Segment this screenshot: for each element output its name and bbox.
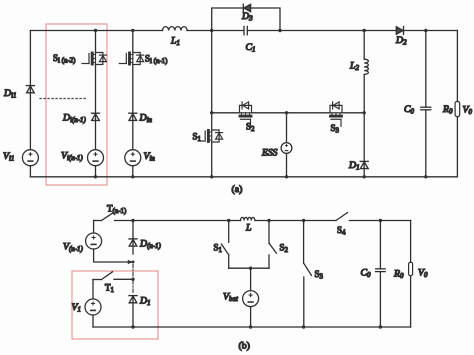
svg-text:Si (n-2): Si (n-2) bbox=[53, 53, 75, 65]
wire S1-S2 bottom link bbox=[229, 267, 269, 269]
node S2 top (b) bbox=[267, 219, 270, 222]
diode D1 (b) bbox=[129, 296, 137, 303]
node D1 bottom bbox=[363, 175, 366, 178]
wire C0 branch (a) bbox=[425, 31, 427, 177]
wire col n mid bbox=[132, 65, 134, 150]
svg-text:ESS: ESS bbox=[261, 148, 278, 159]
red highlight box (b) bbox=[72, 271, 158, 339]
diode D2 bbox=[396, 27, 403, 35]
svg-text:D1: D1 bbox=[348, 160, 360, 172]
node col n-1 top bbox=[94, 29, 97, 32]
wire Vbat top lead bbox=[250, 268, 252, 290]
node Vbat top bbox=[249, 267, 252, 270]
diode D(n-1) bbox=[129, 221, 137, 255]
svg-text:D3: D3 bbox=[241, 11, 253, 23]
node S1 bottom bbox=[210, 175, 213, 178]
wire S1 bottom lead bbox=[211, 142, 213, 177]
node cell junction bbox=[132, 261, 135, 264]
wire right rail (b) bbox=[410, 221, 412, 328]
wire col n bottom bbox=[132, 166, 134, 177]
wire bottom rail (b) bbox=[93, 326, 411, 328]
capacitor C0 (a) bbox=[421, 107, 431, 110]
svg-text:Vi1: Vi1 bbox=[3, 151, 14, 163]
node S3 right bbox=[363, 111, 366, 114]
svg-text:Di(n-1): Di(n-1) bbox=[62, 113, 86, 125]
svg-text:Din: Din bbox=[139, 113, 153, 125]
svg-text:R0: R0 bbox=[442, 104, 453, 116]
node mid (a) bbox=[210, 111, 213, 114]
wire D3 bypass branch bbox=[212, 8, 280, 31]
svg-text:V0: V0 bbox=[463, 105, 473, 117]
svg-text:Vi(n-1): Vi(n-1) bbox=[61, 151, 83, 163]
svg-text:S3: S3 bbox=[331, 123, 340, 135]
switch S2 (b) bbox=[269, 221, 276, 269]
node T1 right bbox=[131, 278, 134, 281]
source Vi(n-1) bbox=[88, 150, 104, 166]
svg-text:S4: S4 bbox=[337, 225, 346, 237]
node C0 top (b) bbox=[379, 219, 382, 222]
transistor Si(n-1) bbox=[119, 53, 143, 65]
diode D1 (a) bbox=[360, 161, 368, 168]
switch S3 (b) bbox=[304, 221, 312, 328]
node cell n top bbox=[131, 219, 134, 222]
wire L2 upper lead bbox=[363, 31, 365, 60]
svg-text:S1: S1 bbox=[193, 132, 202, 144]
svg-text:V0: V0 bbox=[418, 268, 428, 280]
wire V1 top lead bbox=[92, 280, 94, 300]
node col n top bbox=[131, 29, 134, 32]
resistor R0 (a) bbox=[455, 102, 460, 117]
switch S1 (b) bbox=[221, 221, 228, 269]
capacitor C1 bbox=[244, 26, 247, 34]
svg-text:C0: C0 bbox=[404, 104, 415, 116]
svg-text:(b): (b) bbox=[239, 341, 250, 352]
source ESS bbox=[281, 143, 292, 154]
svg-text:D(n-1): D(n-1) bbox=[139, 239, 162, 251]
svg-text:V1: V1 bbox=[72, 302, 81, 314]
node C0 top (a) bbox=[424, 29, 427, 32]
wire Vbat bottom lead bbox=[250, 307, 252, 327]
wire D1 bottom lead (b) bbox=[132, 296, 134, 327]
source Vbat bbox=[243, 291, 259, 307]
node D3 branch left bbox=[210, 29, 213, 32]
resistor R0 (b) bbox=[409, 262, 413, 275]
transistor S3 (a) bbox=[330, 102, 342, 126]
wire C0 branch (b) bbox=[379, 221, 381, 328]
inductor L (b) bbox=[241, 217, 255, 220]
wire col n-1 mid bbox=[95, 65, 97, 150]
diode Di1 bbox=[26, 86, 34, 93]
svg-text:Si (n-1): Si (n-1) bbox=[145, 54, 167, 66]
svg-text:C0: C0 bbox=[361, 268, 372, 280]
svg-text:S3: S3 bbox=[315, 269, 324, 281]
svg-text:T1: T1 bbox=[105, 283, 115, 295]
switch S4 (b) bbox=[336, 213, 348, 221]
wire col n-1 bottom bbox=[95, 166, 97, 177]
node S1 top (b) bbox=[227, 219, 230, 222]
node C0 bottom (b) bbox=[379, 325, 382, 328]
wire V(n-1) bottom lead bbox=[94, 249, 128, 262]
diode Din bbox=[129, 113, 137, 120]
svg-text:Vbat: Vbat bbox=[223, 292, 239, 304]
svg-text:D2: D2 bbox=[395, 35, 407, 47]
svg-text:L1: L1 bbox=[170, 36, 180, 48]
wire ESS leads bbox=[286, 113, 288, 177]
source V1 bbox=[85, 299, 101, 315]
svg-text:(a): (a) bbox=[232, 184, 243, 195]
wire V1 bottom lead bbox=[92, 315, 94, 327]
svg-text:L2: L2 bbox=[349, 61, 359, 73]
node Vbat bottom bbox=[249, 325, 252, 328]
wire left rail (a) bbox=[29, 31, 31, 150]
node S3 bottom (b) bbox=[302, 325, 305, 328]
node D1 bottom (b) bbox=[131, 325, 134, 328]
node col n bottom bbox=[131, 175, 134, 178]
inductor L1 bbox=[163, 27, 188, 31]
wire S2 row bbox=[212, 112, 365, 114]
node D3 branch right bbox=[278, 29, 281, 32]
source Vin bbox=[125, 150, 141, 166]
svg-text:L: L bbox=[245, 223, 251, 234]
svg-text:S2: S2 bbox=[246, 122, 255, 134]
wire top rail (b) bbox=[115, 220, 411, 222]
svg-text:R0: R0 bbox=[393, 269, 404, 281]
dash-dot cell link bbox=[132, 265, 134, 295]
node L2 top bbox=[363, 29, 366, 32]
diode D3 bbox=[243, 4, 250, 12]
source Vi1 bbox=[22, 150, 38, 166]
wire top rail (a) bbox=[30, 30, 457, 32]
transistor S1 (a) bbox=[198, 130, 222, 142]
wire right rail (a) bbox=[456, 31, 458, 177]
transistor S2 (a) bbox=[240, 102, 252, 126]
wire column n-1 top lead bbox=[95, 31, 97, 53]
red highlight box (a) bbox=[46, 24, 107, 185]
wire Vi1 bottom bbox=[29, 166, 31, 177]
switch T1 bbox=[93, 272, 133, 280]
svg-text:S2: S2 bbox=[280, 243, 289, 255]
wire bottom rail (a) bbox=[30, 176, 457, 178]
svg-text:T(n-1): T(n-1) bbox=[107, 204, 126, 216]
svg-text:D1: D1 bbox=[139, 296, 151, 308]
source V(n-1) bbox=[86, 233, 102, 249]
node ESS top bbox=[285, 111, 288, 114]
arrow junction cell n bottom bbox=[128, 260, 133, 264]
transistor Si(n-2) bbox=[82, 53, 106, 65]
wire S1 top lead bbox=[211, 113, 213, 130]
node ESS bottom bbox=[285, 175, 288, 178]
svg-text:Di1: Di1 bbox=[3, 88, 16, 100]
node S3 top (b) bbox=[302, 219, 305, 222]
svg-text:V(n-1): V(n-1) bbox=[63, 242, 83, 254]
node C0 bottom (a) bbox=[424, 175, 427, 178]
wire column n top lead bbox=[132, 31, 134, 53]
capacitor C0 (b) bbox=[376, 269, 386, 272]
wire mid vertical (a) bbox=[211, 31, 213, 113]
dotted ellipsis (a) bbox=[40, 98, 88, 100]
node col n-1 bottom bbox=[94, 175, 97, 178]
diode Di(n-1) bbox=[92, 113, 100, 120]
svg-text:C1: C1 bbox=[246, 42, 256, 54]
svg-text:Vin: Vin bbox=[144, 151, 156, 163]
wire V(n-1) top lead bbox=[93, 221, 95, 234]
switch T(n-1) bbox=[94, 213, 113, 221]
wire L2 lower lead bbox=[363, 74, 365, 176]
inductor L2 bbox=[364, 59, 368, 74]
